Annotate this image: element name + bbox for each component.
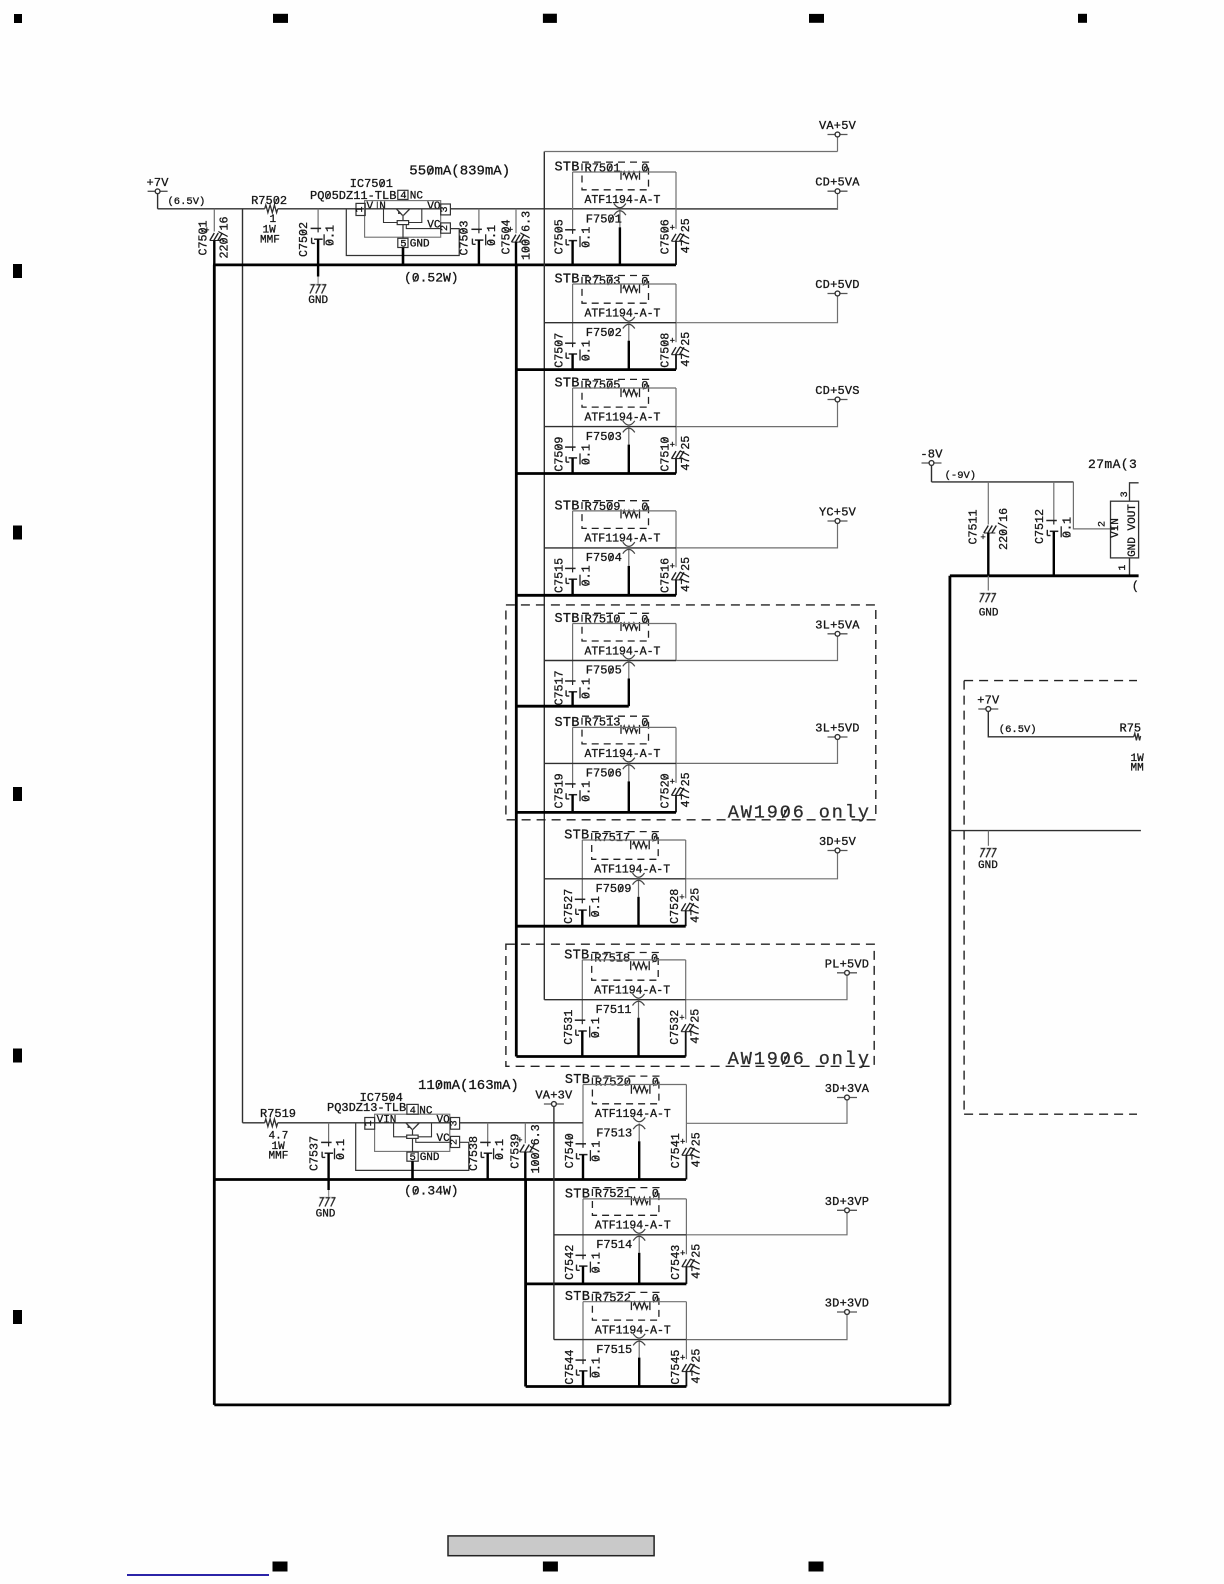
resistor R7521 0 ohm (not fitted) <box>592 1187 659 1215</box>
resistor R75.. (clipped) <box>1120 722 1145 775</box>
node STB (block R7517) <box>564 829 589 844</box>
label (-9V) <box>945 470 977 482</box>
registration mark left 5 <box>13 1310 22 1324</box>
node 3L+5VA terminal <box>815 618 860 636</box>
svg-text:ATF1194-A-T: ATF1194-A-T <box>594 864 670 877</box>
svg-text:NC: NC <box>419 1105 433 1117</box>
IC7511 pin 1 wire <box>1118 558 1129 576</box>
ground bus right <box>950 574 1139 577</box>
wire R7519 feed <box>243 1122 265 1124</box>
wire +7V terminal drop <box>157 194 159 209</box>
wire IC7501 output line <box>450 208 837 210</box>
svg-text:C7539: C7539 <box>508 1134 522 1169</box>
node +7V terminal (right) <box>977 694 1000 712</box>
svg-text:ATF1194-A-T: ATF1194-A-T <box>595 1220 671 1233</box>
node 3D+3VD terminal <box>825 1297 869 1315</box>
IC7501 internal feedback wires <box>384 209 441 229</box>
svg-text:1: 1 <box>355 206 366 212</box>
wire C7511 ground stub <box>987 576 989 591</box>
fuse F7504 ATF1194-A-T <box>586 542 635 595</box>
transistor IC7504 pass element <box>406 1123 419 1129</box>
svg-text:ATF1194-A-T: ATF1194-A-T <box>585 194 661 207</box>
op-amp IC7504 PQ3DZ13-TLB body <box>327 1091 450 1151</box>
svg-text:ATF1194-A-T: ATF1194-A-T <box>585 308 661 321</box>
svg-text:R7517: R7517 <box>594 831 630 845</box>
svg-text:47/25: 47/25 <box>689 1244 703 1279</box>
capacitor C7508 47/25 <box>659 332 694 370</box>
wire block ground edge (F7505) <box>516 705 629 708</box>
wire IC7501 VC loop <box>346 209 459 256</box>
IC7504 pin 3 VO <box>437 1115 461 1130</box>
wire C7502 ground stub <box>317 265 319 284</box>
svg-text:(6.5V): (6.5V) <box>999 724 1037 736</box>
label ATF1194-A-T (F7505) <box>585 645 661 658</box>
node STB (block R7522) <box>565 1290 590 1305</box>
svg-text:C7520: C7520 <box>659 773 673 808</box>
IC7504 pin 4 NC <box>407 1104 433 1117</box>
node STB (block R7510) <box>555 612 580 627</box>
svg-text:C7502: C7502 <box>297 222 311 257</box>
svg-text:STB: STB <box>564 829 589 844</box>
capacitor C7516 47/25 <box>659 557 694 595</box>
capacitor C7543 47/25 <box>669 1244 704 1284</box>
svg-text:47/25: 47/25 <box>689 1132 703 1167</box>
svg-text:47/25: 47/25 <box>689 1349 703 1384</box>
wire through line (F7504) <box>544 547 676 549</box>
op-amp IC7501 PQ05DZ11-TLB body <box>310 177 441 237</box>
node -8V terminal <box>920 448 943 466</box>
wire block ground edge (F7515) <box>526 1385 687 1388</box>
block outline R7518 <box>582 960 685 1020</box>
wire through line (F7515) <box>554 1339 687 1341</box>
node STB (block R7520) <box>565 1073 590 1088</box>
svg-text:ATF1194-A-T: ATF1194-A-T <box>594 985 670 998</box>
label ATF1194-A-T (F7506) <box>585 748 661 761</box>
capacitor C7541 47/25 <box>669 1132 704 1179</box>
svg-text:ATF1194-A-T: ATF1194-A-T <box>595 1324 671 1337</box>
svg-text:AW1906 only: AW1906 only <box>728 802 871 823</box>
svg-text:220/16: 220/16 <box>997 508 1011 550</box>
IC7504 pin 5 GND <box>407 1152 440 1164</box>
svg-text:V: V <box>367 201 374 213</box>
svg-text:STB: STB <box>555 273 580 288</box>
svg-text:C7544: C7544 <box>563 1350 577 1385</box>
capacitor C7540 0.1 <box>563 1133 604 1179</box>
svg-text:F7504: F7504 <box>586 551 622 565</box>
fuse F7509 ATF1194-A-T <box>596 873 645 926</box>
node 3L+5VD terminal <box>815 722 859 740</box>
capacitor C7505 0.1 <box>553 219 594 265</box>
fuse F7503 ATF1194-A-T <box>586 421 635 474</box>
node STB (block R7509) <box>555 499 580 514</box>
capacitor C7538 0.1 <box>467 1123 507 1180</box>
resistor R7519 <box>260 1107 296 1162</box>
wire +7V feed line <box>158 208 265 210</box>
svg-text:GND: GND <box>979 608 999 620</box>
resistor R7502 <box>251 194 287 246</box>
capacitor C7509 0.1 <box>553 437 594 474</box>
svg-text:F7505: F7505 <box>586 664 622 678</box>
resistor R7517 0 ohm (not fitted) <box>592 831 659 860</box>
node +7V terminal <box>146 176 169 194</box>
node STB (block R7501) <box>555 161 580 176</box>
svg-text:AW1906 only: AW1906 only <box>728 1049 871 1070</box>
wire -9V elbow to VIN <box>1073 482 1110 529</box>
IC7501 internal resistor <box>397 215 408 238</box>
svg-text:VO: VO <box>427 201 441 213</box>
ground GND (C7537) <box>316 1197 336 1220</box>
node VA+5V terminal <box>819 119 857 152</box>
ground rail right vertical <box>949 576 952 1405</box>
svg-text:R7509: R7509 <box>585 500 621 514</box>
wire block ground edge (F7514) <box>526 1283 687 1286</box>
IC7504 pin 2 VC <box>437 1133 461 1148</box>
wire output to 3L+5VD <box>676 740 838 764</box>
svg-text:F7502: F7502 <box>586 326 622 340</box>
svg-text:C7515: C7515 <box>553 558 567 593</box>
svg-text:R7522: R7522 <box>595 1292 631 1306</box>
capacitor C7503 0.1 <box>458 209 499 265</box>
wire output to CD+5VD <box>676 296 838 323</box>
fuse F7506 ATF1194-A-T <box>586 758 635 813</box>
dashed group box (clipped right) <box>964 681 1137 1115</box>
label AW1906 only (3L) <box>728 802 871 823</box>
svg-text:GND VOUT: GND VOUT <box>1127 504 1139 557</box>
wire output to 3D+5V <box>686 853 838 879</box>
registration mark top-left <box>14 14 22 23</box>
svg-text:ATF1194-A-T: ATF1194-A-T <box>585 645 661 658</box>
wire R7502 to IC7501 <box>278 208 365 210</box>
capacitor C7539 100/6.3 <box>508 1123 543 1180</box>
svg-text:F7503: F7503 <box>586 430 622 444</box>
svg-text:R7505: R7505 <box>585 379 621 393</box>
node CD+5VA terminal <box>815 176 860 194</box>
node STB (block R7513) <box>555 716 580 731</box>
wire block ground edge (F7506) <box>516 811 676 814</box>
ground GND (right box) <box>978 848 998 872</box>
capacitor C7542 0.1 <box>563 1245 604 1284</box>
svg-text:2: 2 <box>1097 521 1108 527</box>
wire -9V feed line <box>932 481 1074 483</box>
wire block ground edge (F7509) <box>516 925 685 928</box>
block outline R7510 <box>573 624 676 682</box>
fuse F7505 ATF1194-A-T <box>586 655 635 707</box>
svg-text:PL+5VD: PL+5VD <box>825 957 869 971</box>
svg-text:GND: GND <box>410 238 430 250</box>
registration mark bottom 1 <box>273 1562 288 1572</box>
svg-text:ATF1194-A-T: ATF1194-A-T <box>585 533 661 546</box>
resistor R7522 0 ohm (not fitted) <box>592 1292 659 1321</box>
label (0.34W) <box>404 1184 459 1199</box>
svg-text:47/25: 47/25 <box>679 557 693 592</box>
capacitor C7504 100/6.3 <box>499 209 533 265</box>
svg-text:F7514: F7514 <box>596 1238 632 1252</box>
wire through line (F7505) <box>544 660 676 662</box>
svg-text:NC: NC <box>410 191 424 203</box>
label 27mA(3 (clipped) <box>1088 457 1137 472</box>
wire through line (F7502) <box>544 322 676 324</box>
label ( (clipped) <box>1132 579 1139 593</box>
svg-text:VO: VO <box>437 1115 451 1127</box>
svg-text:C7532: C7532 <box>668 1010 682 1045</box>
wire output to CD+5VA <box>676 194 838 209</box>
wire IC7504 output line <box>460 1122 583 1124</box>
label ATF1194-A-T (F7509) <box>594 864 670 877</box>
capacitor C7520 47/25 <box>659 772 694 812</box>
capacitor C7532 47/25 <box>668 1009 703 1057</box>
node STB (block R7503) <box>555 273 580 288</box>
svg-text:(0.34W): (0.34W) <box>404 1184 459 1199</box>
registration mark bottom 3 <box>809 1562 824 1572</box>
link underline <box>127 1574 269 1576</box>
svg-text:C7537: C7537 <box>308 1136 322 1171</box>
capacitor C7519 0.1 <box>553 773 594 812</box>
svg-text:4: 4 <box>410 1105 416 1117</box>
node 3D+3VP terminal <box>825 1195 869 1213</box>
svg-text:3L+5VD: 3L+5VD <box>815 722 859 736</box>
wire output to CD+5VS <box>676 402 838 426</box>
svg-text:C7504: C7504 <box>499 219 513 254</box>
capacitor C7501 220/16 <box>197 209 232 265</box>
svg-text:C7505: C7505 <box>553 219 567 254</box>
wire output to PL+5VD <box>686 976 847 1000</box>
resistor R7510 0 ohm (not fitted) <box>582 613 649 642</box>
ground GND (C7502) <box>308 284 328 307</box>
svg-text:STB: STB <box>565 1290 590 1305</box>
svg-text:C7545: C7545 <box>669 1350 683 1385</box>
resistor R7501 0 ohm (not fitted) <box>582 161 649 190</box>
IC7501 pin 3 VO <box>427 201 451 215</box>
resistor R7513 0 ohm (not fitted) <box>582 715 649 744</box>
wire +7V right drop <box>988 712 1133 737</box>
registration mark top 1 <box>273 14 288 23</box>
wire output to 3D+3VA <box>686 1100 847 1123</box>
svg-text:C7516: C7516 <box>659 558 673 593</box>
svg-text:STB: STB <box>555 161 580 176</box>
registration mark left 1 <box>13 264 22 278</box>
wire block ground edge (F7502) <box>516 368 676 371</box>
capacitor C7517 0.1 <box>553 670 594 706</box>
svg-text:3D+3VP: 3D+3VP <box>825 1195 869 1209</box>
node CD+5VS terminal <box>815 384 859 402</box>
ground rail lower vertical <box>524 1180 527 1387</box>
IC7511 pin 2 <box>1097 521 1115 529</box>
svg-text:110mA(163mA): 110mA(163mA) <box>418 1078 519 1094</box>
svg-text:C7519: C7519 <box>553 773 567 808</box>
svg-text:C7531: C7531 <box>562 1010 576 1045</box>
wire through line (F7506) <box>544 762 676 764</box>
svg-text:R7501: R7501 <box>585 161 621 175</box>
registration mark left 3 <box>13 787 22 801</box>
svg-text:+: + <box>980 533 985 543</box>
svg-text:2: 2 <box>440 225 451 231</box>
capacitor C7502 0.1 <box>297 209 337 265</box>
block outline R7503 <box>573 284 676 343</box>
svg-text:1: 1 <box>1118 565 1129 571</box>
label ATF1194-A-T (F7504) <box>585 533 661 546</box>
svg-text:-8V: -8V <box>920 448 943 462</box>
svg-text:(0.52W): (0.52W) <box>404 271 459 286</box>
transistor IC7501 pass element <box>397 209 410 215</box>
svg-text:(: ( <box>1132 579 1139 593</box>
svg-text:C7507: C7507 <box>553 333 567 368</box>
ground rail mid vertical <box>515 265 518 1057</box>
wire through line (F7509) <box>544 878 685 880</box>
svg-text:(6.5V): (6.5V) <box>168 196 206 208</box>
svg-text:R7519: R7519 <box>260 1107 296 1121</box>
ground GND (right) <box>979 593 999 620</box>
svg-text:VC: VC <box>437 1133 451 1145</box>
block outline R7513 <box>573 727 676 784</box>
svg-text:3D+5V: 3D+5V <box>819 835 857 849</box>
svg-text:27mA(3: 27mA(3 <box>1088 457 1137 472</box>
ground rail left vertical <box>213 265 216 1405</box>
capacitor C7515 0.1 <box>553 558 594 595</box>
svg-text:F7511: F7511 <box>596 1003 632 1017</box>
capacitor C7545 47/25 <box>669 1349 704 1387</box>
wire through line (F7511) <box>544 999 685 1001</box>
ground bus IC7504 <box>214 1178 686 1181</box>
svg-text:100/6.3: 100/6.3 <box>529 1124 543 1173</box>
IC7501 internal rail <box>365 208 441 210</box>
wire block ground edge (F7503) <box>516 472 676 475</box>
wire GND stub (right box) <box>987 831 989 846</box>
IC7501 pin 5 GND <box>398 238 430 250</box>
svg-text:YC+5V: YC+5V <box>819 506 857 520</box>
node STB (block R7521) <box>565 1187 590 1202</box>
registration mark left 2 <box>13 526 22 540</box>
label box (blank) <box>448 1536 654 1556</box>
svg-text:R7503: R7503 <box>585 275 621 289</box>
wire through line (F7514) <box>554 1234 687 1236</box>
capacitor C7510 47/25 <box>659 436 694 474</box>
node CD+5VD terminal <box>815 278 859 296</box>
capacitor C7537 0.1 <box>308 1123 348 1180</box>
resistor R7505 0 ohm (not fitted) <box>582 379 649 408</box>
wire output to 3D+3VP <box>686 1213 847 1235</box>
svg-text:C7542: C7542 <box>563 1245 577 1280</box>
fuse F7515 ATF1194-A-T <box>596 1334 645 1387</box>
svg-text:2: 2 <box>450 1139 461 1145</box>
wire IC7504 VC loop <box>356 1123 469 1171</box>
svg-text:R7520: R7520 <box>595 1075 631 1089</box>
svg-text:+7V: +7V <box>977 694 1000 708</box>
node YC+5V terminal <box>819 506 857 524</box>
svg-text:+7V: +7V <box>146 176 169 190</box>
svg-text:C7510: C7510 <box>659 437 673 472</box>
svg-text:GND: GND <box>420 1152 440 1164</box>
IC7501 pin 1 VIN <box>355 201 386 216</box>
svg-text:F7515: F7515 <box>596 1343 632 1357</box>
svg-text:220/16: 220/16 <box>218 216 232 258</box>
svg-text:C7506: C7506 <box>659 219 673 254</box>
capacitor C7531 0.1 <box>562 1010 603 1057</box>
svg-text:VC: VC <box>427 220 441 232</box>
svg-text:R7510: R7510 <box>585 613 621 627</box>
wire +7V rail down to IC7504 <box>242 209 244 1123</box>
capacitor C7527 0.1 <box>562 889 603 926</box>
registration mark bottom 2 <box>543 1562 558 1572</box>
capacitor C7511 220/16 <box>967 482 1012 576</box>
svg-text:R7502: R7502 <box>251 194 287 208</box>
wire output to YC+5V <box>676 524 838 548</box>
svg-text:C7538: C7538 <box>467 1136 481 1171</box>
svg-text:F7509: F7509 <box>596 882 632 896</box>
svg-text:C7509: C7509 <box>553 437 567 472</box>
svg-text:3D+3VA: 3D+3VA <box>825 1082 870 1096</box>
IC7504 internal resistor <box>407 1129 418 1152</box>
block outline R7505 <box>573 388 676 447</box>
block outline R7522 <box>583 1302 686 1360</box>
label ATF1194-A-T (F7511) <box>594 985 670 998</box>
svg-text:47/25: 47/25 <box>679 436 693 471</box>
wire block ground edge (F7504) <box>516 594 676 597</box>
node 3D+3VA terminal <box>825 1082 870 1100</box>
wire through line (F7503) <box>544 426 676 428</box>
svg-text:3: 3 <box>450 1120 461 1126</box>
svg-text:CD+5VS: CD+5VS <box>815 384 859 398</box>
svg-text:F7501: F7501 <box>586 213 622 227</box>
IC7504 internal rail <box>375 1122 451 1124</box>
svg-text:47/25: 47/25 <box>679 332 693 367</box>
svg-text:CD+5VA: CD+5VA <box>815 176 860 190</box>
label (6.5V) <box>168 196 206 208</box>
svg-text:MMF: MMF <box>260 234 280 246</box>
svg-text:C7503: C7503 <box>458 220 472 255</box>
label (6.5V) right <box>999 724 1037 736</box>
label (0.52W) <box>404 271 459 286</box>
svg-text:N: N <box>379 201 386 213</box>
registration mark top 4 <box>1078 14 1087 23</box>
IC7501 pin 4 NC <box>398 190 424 202</box>
dashed group box AW1906 only (3L) <box>506 605 876 820</box>
svg-text:STB: STB <box>555 499 580 514</box>
label AW1906 only (PL) <box>728 1049 871 1070</box>
wire output to 3L+5VA <box>676 637 838 661</box>
label ATF1194-A-T (F7513) <box>595 1108 671 1121</box>
IC7501 pin 2 VC <box>427 220 451 234</box>
svg-text:F7513: F7513 <box>596 1127 632 1141</box>
svg-text:ATF1194-A-T: ATF1194-A-T <box>585 748 661 761</box>
svg-text:ATF1194-A-T: ATF1194-A-T <box>585 411 661 424</box>
capacitor C7528 47/25 <box>668 888 703 926</box>
svg-text:4: 4 <box>400 190 406 202</box>
wire -8V drop <box>931 466 933 482</box>
svg-text:C7517: C7517 <box>553 670 567 705</box>
fuse F7514 ATF1194-A-T <box>596 1229 645 1284</box>
registration mark top 3 <box>809 14 824 23</box>
svg-text:3D+3VD: 3D+3VD <box>825 1297 869 1311</box>
block outline R7509 <box>573 511 676 569</box>
svg-text:STB: STB <box>565 1187 590 1202</box>
node VA+3V terminal <box>535 1089 573 1107</box>
svg-text:C7543: C7543 <box>669 1245 683 1280</box>
fuse F7511 ATF1194-A-T <box>596 994 645 1057</box>
label 550mA(839mA) <box>409 164 510 180</box>
svg-text:(-9V): (-9V) <box>945 470 977 482</box>
node STB (block R7518) <box>564 948 589 963</box>
resistor R7520 0 ohm (not fitted) <box>592 1075 659 1103</box>
svg-text:1: 1 <box>364 1120 375 1126</box>
svg-text:C7528: C7528 <box>668 889 682 924</box>
svg-text:R7518: R7518 <box>594 952 630 966</box>
svg-text:47/25: 47/25 <box>689 1009 703 1044</box>
op-amp IC7511 regulator body <box>1110 501 1139 558</box>
svg-text:GND: GND <box>308 295 328 307</box>
label ATF1194-A-T (F7515) <box>595 1324 671 1337</box>
label ATF1194-A-T (F7502) <box>585 308 661 321</box>
dashed group box AW1906 only (PL) <box>506 944 874 1066</box>
